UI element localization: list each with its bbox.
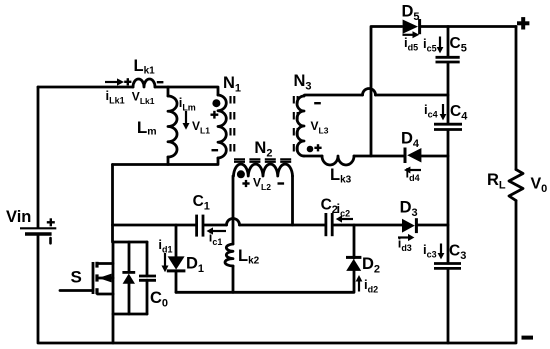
svg-text:Vin: Vin [6,208,31,226]
svg-text:S: S [71,268,82,287]
